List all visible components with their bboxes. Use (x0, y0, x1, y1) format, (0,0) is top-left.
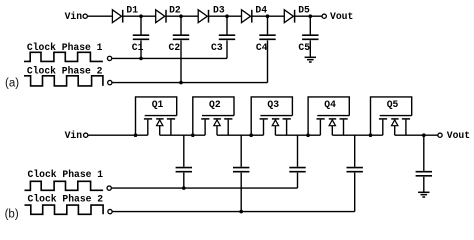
svg-text:C3: C3 (211, 42, 223, 53)
wire Vin to D1 (88, 15, 113, 17)
ground (b) (418, 192, 429, 197)
wire Q3 source to Q4 drain (275, 134, 320, 136)
wire D3 cathode to next (209, 15, 242, 17)
terminal Vout (a) (322, 14, 326, 18)
terminal Vin (a) (83, 14, 87, 18)
svg-text:Vout: Vout (447, 130, 470, 141)
diode D5 (284, 10, 294, 23)
waveform clock phase 1 (b) (25, 181, 104, 190)
transistor Q5 (371, 97, 412, 135)
node N2 junction (a) (179, 14, 183, 18)
svg-text:Q3: Q3 (267, 99, 279, 110)
svg-text:Clock Phase 1: Clock Phase 1 (28, 169, 104, 180)
capacitor C4 (259, 35, 275, 39)
wire D5 cathode to next (295, 15, 322, 17)
wire Q1 source to Q2 drain (160, 134, 205, 136)
svg-text:D1: D1 (126, 5, 138, 16)
diode D3 (198, 10, 208, 23)
svg-text:D3: D3 (213, 5, 225, 16)
capacitor stage 4 (b) (347, 168, 363, 172)
wire node N5 to C5 (309, 16, 311, 34)
wire node N1 to C1 (140, 16, 142, 34)
svg-text:C2: C2 (169, 42, 181, 53)
junction C1 on phase 1 line (a) (139, 57, 143, 61)
capacitor stage 3 (b) (289, 168, 305, 172)
svg-text:D2: D2 (169, 5, 181, 16)
wire node N2 to C2 (180, 16, 182, 34)
capacitor C2 (173, 35, 189, 39)
node N5 junction (a) (309, 14, 313, 18)
svg-text:(b): (b) (5, 209, 19, 221)
capacitor C1 (133, 35, 149, 39)
svg-text:C4: C4 (256, 42, 268, 53)
svg-text:Q4: Q4 (324, 99, 336, 110)
wire C1 to clock phase 1 line (140, 40, 142, 58)
terminal clock phase 1 (b) (107, 186, 111, 190)
wire C2 to clock phase 2 line (180, 40, 182, 82)
wire Vout node to output capacitor (423, 135, 425, 171)
junction Q3 gate-drain (b) (249, 133, 253, 137)
capacitor stage 2 (b) (233, 168, 249, 172)
capacitor output (b) (416, 172, 432, 176)
wire node M4 down to capacitor (b) (354, 135, 356, 167)
transistor Q1 (136, 97, 177, 135)
waveform clock phase 1 (a) (24, 52, 103, 61)
junction Q2 gate-drain (b) (191, 133, 195, 137)
wire cap2 to clock phase 2 line (b) (240, 173, 242, 212)
wire output capacitor to ground (423, 177, 425, 193)
terminal clock phase 1 (a) (107, 56, 111, 60)
wire Q2 source to Q3 drain (217, 134, 264, 136)
wire cap1 to clock phase 1 line (b) (183, 173, 185, 188)
wire C5 to ground (309, 40, 311, 57)
wire Vin to Q1 drain (88, 134, 148, 136)
svg-text:Vout: Vout (330, 11, 353, 22)
capacitor C3 (219, 35, 235, 39)
svg-text:Vin: Vin (65, 11, 83, 22)
svg-text:C5: C5 (298, 42, 310, 53)
junction cap2 on phase 2 line (b) (239, 210, 243, 214)
svg-text:Q5: Q5 (387, 99, 399, 110)
svg-text:D4: D4 (255, 5, 267, 16)
junction output capacitor (b) (422, 133, 426, 137)
wire cap4 down to phase 2 corner (b) (354, 173, 356, 212)
wire D1 cathode to next (123, 15, 156, 17)
svg-text:Vin: Vin (65, 130, 83, 141)
wire node M3 down to capacitor (b) (297, 135, 299, 167)
svg-text:(a): (a) (5, 78, 19, 90)
terminal Vin (b) (84, 133, 88, 137)
wire cap3 down to phase 1 corner (b) (297, 173, 299, 188)
wire node N3 to C3 (226, 16, 228, 34)
wire clock phase 2 line (a) (112, 82, 267, 84)
junction cap1 on phase 1 line (b) (182, 186, 186, 190)
wire D2 cathode to next (166, 15, 198, 17)
ground (a) (305, 57, 316, 62)
wire Q4 source to Q5 drain (332, 134, 383, 136)
wire D4 cathode to next (252, 15, 284, 17)
wire Q5 source to Vout (395, 134, 438, 136)
waveform clock phase 2 (b) (25, 205, 104, 214)
wire node M2 down to capacitor (b) (240, 135, 242, 167)
transistor Q3 (251, 97, 292, 135)
node N3 junction (a) (225, 14, 229, 18)
wire C4 down to phase 2 corner (267, 40, 269, 82)
terminal Vout (b) (438, 133, 442, 137)
junction Q1 gate-drain (b) (134, 133, 138, 137)
wire node M1 down to capacitor (b) (183, 135, 185, 167)
wire clock phase 2 line (b) (112, 211, 354, 213)
svg-text:Clock Phase 1: Clock Phase 1 (27, 42, 103, 53)
svg-text:Q1: Q1 (152, 99, 164, 110)
terminal clock phase 2 (b) (108, 209, 112, 213)
capacitor C5 (302, 35, 318, 39)
diode D4 (242, 10, 252, 23)
junction Q5 gate-drain (b) (369, 133, 373, 137)
junction C2 on phase 2 line (a) (179, 81, 183, 85)
capacitor stage 1 (b) (176, 168, 192, 172)
waveform clock phase 2 (a) (24, 76, 103, 86)
svg-text:Clock Phase 2: Clock Phase 2 (28, 194, 104, 205)
diode D1 (112, 10, 122, 23)
svg-text:Q2: Q2 (209, 99, 221, 110)
svg-text:C1: C1 (132, 42, 144, 53)
transistor Q4 (308, 97, 349, 135)
wire clock phase 1 line (b) (112, 187, 298, 189)
diode D2 (156, 10, 166, 23)
wire C3 down to phase 1 corner (226, 40, 228, 58)
svg-text:D5: D5 (298, 5, 310, 16)
wire clock phase 1 line (a) (112, 57, 227, 59)
svg-text:Clock Phase 2: Clock Phase 2 (27, 66, 103, 77)
node N1 junction (a) (139, 14, 143, 18)
node N4 junction (a) (266, 14, 270, 18)
terminal clock phase 2 (a) (108, 80, 112, 84)
wire node N4 to C4 (267, 16, 269, 34)
transistor Q2 (193, 97, 234, 135)
junction Q4 gate-drain (b) (306, 133, 310, 137)
